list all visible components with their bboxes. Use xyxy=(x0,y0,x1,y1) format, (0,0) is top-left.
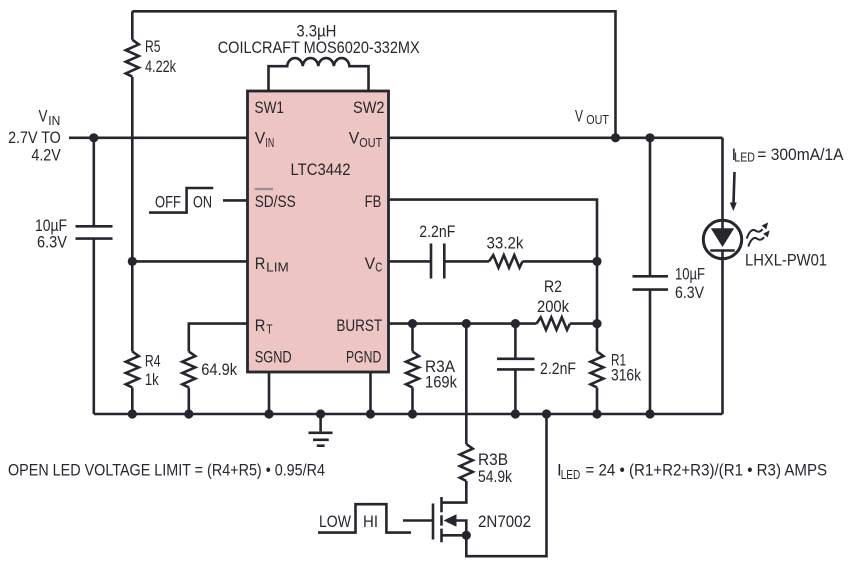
svg-text:R2: R2 xyxy=(544,277,562,296)
node MOSFET source junction xyxy=(462,531,471,540)
wire RLIM node down to R4 xyxy=(131,261,134,351)
node R3A top xyxy=(408,319,417,328)
svg-text:COILCRAFT MOS6020-332MX: COILCRAFT MOS6020-332MX xyxy=(218,38,420,57)
svg-text:54.9k: 54.9k xyxy=(478,467,512,486)
svg-text:T: T xyxy=(266,323,273,337)
svg-text:SW1: SW1 xyxy=(255,98,285,117)
svg-text:LIM: LIM xyxy=(266,261,289,275)
svg-text:OFF: OFF xyxy=(155,192,181,211)
svg-text:316k: 316k xyxy=(611,366,641,385)
wire PGND pin xyxy=(369,372,372,414)
wire gate lead xyxy=(403,519,433,522)
svg-text:R: R xyxy=(255,254,266,273)
wire R5 bottom to RLIM node xyxy=(131,77,134,262)
node R3B top xyxy=(462,319,471,328)
transistor Q1 2N7002 xyxy=(433,481,466,542)
svg-text:4.22k: 4.22k xyxy=(145,57,176,76)
svg-text:OUT: OUT xyxy=(586,113,609,127)
svg-text:R5: R5 xyxy=(145,37,161,56)
node ground rail junction x=132.3 xyxy=(128,409,137,418)
wire VIN input line xyxy=(69,137,247,140)
node ground rail junction x=269 xyxy=(264,409,273,418)
node ground rail junction x=370.5 xyxy=(366,409,375,418)
node R1 top junction xyxy=(592,319,601,328)
resistor 33.2k xyxy=(489,255,523,268)
wire VOUT line xyxy=(389,137,722,140)
ground symbol xyxy=(309,414,333,446)
resistor R4 xyxy=(126,352,139,388)
svg-text:= 24 • (R1+R2+R3)/(R1 • R3) AM: = 24 • (R1+R2+R3)/(R1 • R3) AMPS xyxy=(586,461,828,480)
svg-text:R: R xyxy=(255,316,266,335)
svg-text:6.3V: 6.3V xyxy=(37,232,68,251)
wire VC pin xyxy=(389,260,431,263)
wire SGND pin xyxy=(268,372,271,414)
svg-text:33.2k: 33.2k xyxy=(487,234,524,253)
svg-text:169k: 169k xyxy=(425,373,457,392)
node VC network to FB junction xyxy=(592,257,601,266)
arrow ILED current xyxy=(730,172,737,211)
wire BURST pin row xyxy=(389,322,536,325)
wire VC cap to 33.2k xyxy=(444,260,489,263)
node VIN junction to input cap xyxy=(89,133,98,142)
svg-text:LOW: LOW xyxy=(319,512,351,531)
svg-text:LTC3442: LTC3442 xyxy=(291,160,351,179)
svg-text:OUT: OUT xyxy=(359,136,382,150)
svg-text:64.9k: 64.9k xyxy=(201,360,237,379)
svg-text:SW2: SW2 xyxy=(353,98,385,117)
wire FB pin to divider xyxy=(389,200,597,262)
wire bottom ground rail xyxy=(94,413,723,416)
node 2.2nF top xyxy=(511,319,520,328)
svg-text:LED: LED xyxy=(561,468,581,482)
svg-text:2.2nF: 2.2nF xyxy=(540,359,576,378)
svg-text:1k: 1k xyxy=(145,370,159,389)
svg-text:SD/SS: SD/SS xyxy=(255,192,296,211)
svg-text:C: C xyxy=(375,261,382,275)
svg-text:LHXL-PW01: LHXL-PW01 xyxy=(745,251,827,270)
node ground rail junction x=188.8 xyxy=(184,409,193,418)
wire SD/SS pin xyxy=(223,199,247,202)
svg-text:2N7002: 2N7002 xyxy=(478,512,531,531)
svg-text:OPEN LED VOLTAGE LIMIT = (R4+R: OPEN LED VOLTAGE LIMIT = (R4+R5) • 0.95/… xyxy=(8,461,325,480)
capacitor 2.2nF (VC) xyxy=(431,244,444,279)
svg-text:10µF: 10µF xyxy=(675,265,705,284)
svg-text:2.2nF: 2.2nF xyxy=(419,222,455,241)
svg-text:2.7V TO: 2.7V TO xyxy=(8,128,61,147)
resistor 64.9k xyxy=(182,352,195,388)
resistor R1 xyxy=(596,324,599,352)
svg-text:BURST: BURST xyxy=(336,316,382,335)
logic step OFF/ON symbol xyxy=(149,188,213,213)
svg-text:HI: HI xyxy=(363,512,378,531)
svg-text:R4: R4 xyxy=(145,351,161,370)
svg-text:IN: IN xyxy=(265,136,274,150)
wire source return to ground rail xyxy=(466,414,546,556)
svg-text:IN: IN xyxy=(48,114,60,128)
capacitor C-in 10uF xyxy=(76,138,113,414)
LED light rays xyxy=(747,222,770,246)
capacitor C-out 10uF xyxy=(633,138,669,414)
resistor R3B xyxy=(465,324,468,444)
capacitor 2.2nF (BURST) xyxy=(497,324,535,414)
svg-text:= 300mA/1A: = 300mA/1A xyxy=(757,145,844,164)
svg-text:PGND: PGND xyxy=(346,348,381,367)
svg-text:200k: 200k xyxy=(537,297,569,316)
svg-text:SGND: SGND xyxy=(255,348,292,367)
LED D1 LHXL-PW01 xyxy=(703,220,741,260)
svg-text:V: V xyxy=(349,129,360,148)
node ground rail junction x=597 xyxy=(592,409,601,418)
svg-text:4.2V: 4.2V xyxy=(31,146,61,165)
inductor L1 3.3uH xyxy=(269,58,369,90)
node ground rail junction x=546.5 xyxy=(542,409,551,418)
node RLIM junction xyxy=(128,257,137,266)
wire LED branch vertical xyxy=(721,138,724,414)
node VOUT top-rail junction xyxy=(611,133,620,142)
wire FB node to BURST node xyxy=(596,261,599,323)
node ground rail junction x=412.5 xyxy=(408,409,417,418)
svg-text:V: V xyxy=(255,129,266,148)
svg-text:6.3V: 6.3V xyxy=(675,283,705,302)
node ground rail junction x=650 xyxy=(645,409,654,418)
logic pulse LOW/HI symbol xyxy=(318,504,411,532)
svg-text:LED: LED xyxy=(734,151,755,165)
svg-text:V: V xyxy=(365,254,376,273)
svg-text:V: V xyxy=(39,107,49,126)
wire RLIM pin xyxy=(132,260,246,263)
svg-text:ON: ON xyxy=(193,192,212,211)
wire RT pin to 64.9k xyxy=(189,324,247,352)
resistor R5 xyxy=(131,11,134,39)
wire top rail from R5 top to VOUT node xyxy=(132,11,615,138)
node ground rail junction x=515.4 xyxy=(511,409,520,418)
node VOUT output-cap junction xyxy=(645,133,654,142)
node ground rail junction x=320.6 xyxy=(316,409,325,418)
op-amp U1 LTC3442 body xyxy=(248,91,389,372)
resistor R3A xyxy=(411,324,414,352)
svg-text:FB: FB xyxy=(365,192,382,211)
resistor R2 xyxy=(537,317,571,330)
svg-text:V: V xyxy=(575,107,583,126)
